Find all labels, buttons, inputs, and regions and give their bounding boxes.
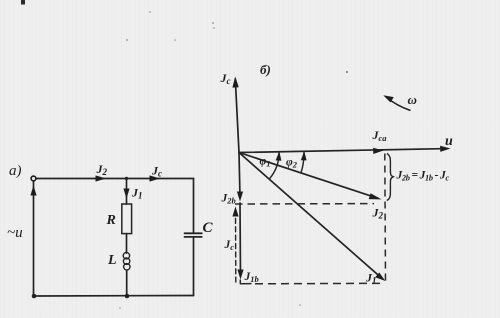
- svg-text:C: C: [203, 220, 214, 236]
- svg-text:φ2: φ2: [286, 157, 298, 170]
- svg-text:ω: ω: [408, 92, 417, 107]
- svg-text:J2: J2: [96, 162, 108, 177]
- svg-text:u: u: [445, 134, 453, 149]
- svg-text:J2b: J2b: [221, 193, 236, 206]
- svg-text:J2: J2: [372, 206, 384, 221]
- svg-text:~u: ~u: [7, 225, 23, 241]
- svg-text:a): a): [9, 163, 22, 179]
- svg-text:Jc: Jc: [151, 164, 162, 179]
- svg-text:Jc: Jc: [220, 71, 231, 86]
- svg-text:R: R: [106, 213, 116, 228]
- svg-text:J1: J1: [131, 186, 143, 201]
- svg-text:J1b: J1b: [244, 271, 259, 284]
- svg-text:Jca: Jca: [372, 128, 388, 143]
- svg-text:б): б): [260, 62, 271, 77]
- svg-text:J2b = J1b - Jc: J2b = J1b - Jc: [396, 170, 450, 183]
- svg-text:Jc: Jc: [224, 239, 235, 252]
- svg-text:φ1: φ1: [260, 156, 271, 169]
- svg-text:L: L: [107, 253, 117, 268]
